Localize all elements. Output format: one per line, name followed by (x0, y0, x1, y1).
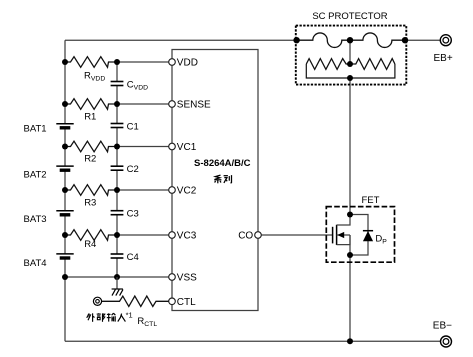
battery BAT4 (56, 254, 73, 258)
pin CO (255, 232, 262, 239)
transistor Q1 body arrow head (337, 232, 344, 238)
svg-text:CO: CO (238, 231, 253, 242)
capacitor C3 (111, 211, 124, 215)
junction (114, 232, 120, 238)
junction (62, 274, 68, 280)
svg-text:R2: R2 (84, 154, 96, 165)
wire SC protector output to EB+ (405, 39, 440, 41)
label char 部 (97, 313, 105, 322)
fuse F2 (350, 33, 405, 48)
svg-text:VC2: VC2 (177, 186, 197, 197)
junction fuse input (293, 37, 299, 43)
junction fuse output (402, 37, 408, 43)
junction FET source (347, 252, 353, 258)
capacitor C4 (111, 254, 124, 258)
wire CO to FET gate (261, 234, 332, 236)
wire left battery rail (64, 40, 66, 341)
terminal EB- (441, 336, 452, 347)
label char 外 (87, 313, 95, 322)
svg-text:SENSE: SENSE (177, 100, 211, 111)
junction (62, 144, 68, 150)
svg-text:FET: FET (362, 195, 380, 206)
junction (62, 187, 68, 193)
wire VC3 row (117, 234, 169, 236)
junction fuse midpoint (347, 37, 353, 43)
svg-text:DP: DP (375, 234, 387, 246)
svg-text:RCTL: RCTL (137, 316, 157, 328)
ground (112, 289, 123, 296)
diode DP (363, 231, 373, 242)
label char 输 (107, 313, 116, 321)
svg-text:EB+: EB+ (434, 53, 453, 64)
svg-text:C2: C2 (127, 164, 139, 175)
pin VSS (169, 274, 176, 281)
svg-text:BAT3: BAT3 (24, 214, 47, 225)
junction (114, 274, 120, 280)
pin SENSE (169, 101, 176, 108)
pin VC2 (169, 187, 176, 194)
junction FET drain (347, 212, 353, 218)
resistor R1 (65, 99, 117, 110)
heater frame (306, 64, 395, 78)
svg-text:VC3: VC3 (177, 231, 197, 242)
pin VC3 (169, 232, 176, 239)
FET box (326, 207, 394, 263)
svg-text:BAT1: BAT1 (24, 124, 47, 135)
wire heater to FET drain (349, 78, 351, 215)
transistor Q1 body arrow line (337, 234, 350, 236)
junction (62, 59, 68, 65)
diode DP branch (350, 215, 368, 256)
svg-text:RVDD: RVDD (84, 71, 105, 83)
junction (62, 232, 68, 238)
terminal EB+ (440, 35, 451, 46)
svg-text:CTL: CTL (177, 297, 196, 308)
label char 入 (118, 314, 126, 322)
pin VDD (169, 59, 176, 66)
wire VC1 row (117, 146, 169, 148)
label series char 列 (224, 175, 232, 183)
svg-text:R4: R4 (84, 239, 96, 250)
wire FET source to EB- rail (349, 255, 351, 341)
junction (62, 101, 68, 107)
wire VSS row (65, 276, 169, 278)
svg-text:VSS: VSS (177, 273, 197, 284)
transistor Q1 source branch (337, 235, 350, 245)
svg-text:C3: C3 (127, 209, 139, 220)
wire VC2 row (117, 189, 169, 191)
svg-text:BAT4: BAT4 (24, 258, 47, 269)
svg-text:VC1: VC1 (177, 142, 197, 153)
junction (114, 187, 120, 193)
svg-text:R1: R1 (84, 112, 96, 123)
wire capacitor rail (116, 62, 118, 277)
junction (114, 101, 120, 107)
wire SENSE row (117, 103, 169, 105)
junction bottom rail (347, 338, 353, 344)
svg-text:R3: R3 (84, 198, 96, 209)
wire source to bottom junction (349, 235, 351, 255)
svg-text:S-8264A/B/C: S-8264A/B/C (194, 158, 251, 169)
heater resistor RH2 (350, 59, 395, 70)
svg-text:*1: *1 (126, 311, 133, 320)
transistor Q1 gate bar (332, 227, 334, 244)
transistor Q1 drain branch (337, 215, 350, 226)
battery BAT3 (56, 211, 73, 215)
svg-text:EB−: EB− (433, 321, 452, 332)
svg-text:SC PROTECTOR: SC PROTECTOR (312, 11, 387, 22)
label series char 系 (214, 175, 221, 183)
resistor RCTL (102, 296, 169, 306)
pin VC1 (169, 143, 176, 150)
wire bottom EB- rail (65, 340, 440, 342)
wire VSS to ground (116, 277, 118, 289)
battery BAT2 (56, 166, 73, 170)
wire fuse midpoint to heater (349, 40, 351, 64)
svg-text:VDD: VDD (177, 58, 198, 69)
svg-text:BAT2: BAT2 (24, 170, 47, 181)
resistor R3 (65, 185, 117, 196)
junction (114, 144, 120, 150)
svg-text:CVDD: CVDD (127, 80, 148, 92)
capacitor C1 (111, 124, 124, 128)
svg-text:C1: C1 (127, 122, 139, 133)
transistor Q1 channel bar (336, 225, 338, 245)
battery BAT1 (56, 124, 73, 128)
pin CTL (169, 298, 176, 305)
wire VDD row (117, 61, 169, 63)
capacitor C2 (111, 166, 124, 170)
heater resistor RH1 (306, 59, 350, 70)
wire top rail (65, 39, 297, 41)
resistor R2 (65, 141, 117, 152)
junction heater bottom (347, 75, 353, 81)
terminal external input (93, 297, 101, 305)
resistor RVDD (65, 57, 117, 68)
IC U1 S-8264A/B/C body (172, 50, 258, 311)
fuse F1 (297, 33, 350, 48)
resistor R4 (65, 230, 117, 241)
junction heater top (347, 61, 353, 67)
junction (114, 59, 120, 65)
capacitor CVDD (111, 82, 124, 86)
SC protector box (296, 26, 407, 85)
svg-text:C4: C4 (127, 252, 139, 263)
